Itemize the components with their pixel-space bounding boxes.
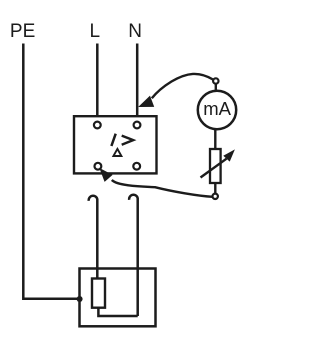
wire resistor bottom to inner corner [98, 308, 137, 316]
terminal L top [94, 122, 101, 129]
svg-text:PE: PE [10, 21, 35, 42]
wire: probe to RCD bottom-left terminal [112, 180, 213, 197]
milliammeter mA [198, 91, 236, 129]
terminal L bottom [95, 163, 102, 170]
svg-text:L: L [90, 21, 101, 42]
resistor (load) in enclosure [92, 279, 105, 308]
arrowhead onto N line [138, 96, 154, 107]
wire PE conductor [23, 44, 78, 299]
test lead hook left [89, 196, 98, 279]
appliance enclosure box [80, 269, 156, 327]
svg-text:N: N [128, 21, 142, 42]
wire: mA probe toward N line [152, 74, 213, 98]
label greater-than [122, 136, 134, 145]
wire L conductor [96, 44, 99, 122]
terminal N top [134, 122, 141, 129]
test lead hook right [129, 195, 138, 316]
wire from mA top to terminal [215, 84, 217, 92]
label delta subscript [113, 149, 121, 156]
svg-text:mA: mA [203, 98, 231, 119]
terminal (probe) below variable resistor [213, 194, 218, 199]
wire N conductor [136, 44, 139, 122]
label I (italic stroke) [111, 134, 115, 146]
variable resistor [201, 129, 235, 194]
junction dot on enclosure [77, 296, 83, 302]
terminal (probe) above mA [213, 78, 218, 83]
arrowhead onto bottom-left terminal [99, 168, 112, 182]
terminal N bottom [133, 163, 140, 170]
RCD box [74, 116, 157, 173]
